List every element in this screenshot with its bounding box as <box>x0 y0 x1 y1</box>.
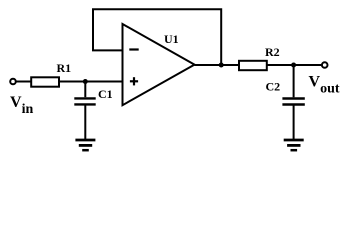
output terminal (open circle) <box>322 62 328 68</box>
wire: op-amp output to R2 <box>195 64 239 66</box>
resistor R2 <box>239 61 267 70</box>
wire: input terminal to R1 <box>16 81 31 83</box>
wire: junction down to C2 <box>293 65 295 97</box>
wire: junction down to C1 <box>84 82 86 98</box>
wire: C2 to ground <box>293 106 295 140</box>
node: junction of R2/C2 <box>291 63 296 68</box>
svg-text:U1: U1 <box>164 32 179 46</box>
op-amp inverting input symbol (minus) <box>129 48 138 50</box>
resistor R1 <box>31 77 59 86</box>
op-amp U1 (triangle body) <box>123 24 195 105</box>
svg-text:R2: R2 <box>265 45 280 59</box>
ground (right) <box>284 140 304 150</box>
svg-text:C1: C1 <box>98 87 113 101</box>
node: output/feedback junction <box>219 63 224 68</box>
op-amp non-inverting input symbol (plus) <box>130 77 138 85</box>
svg-text:C2: C2 <box>266 79 281 93</box>
wire: R1 to op-amp + input <box>60 81 123 83</box>
capacitor C2 <box>282 99 304 105</box>
ground (left) <box>75 140 95 150</box>
wire: R2 to output terminal <box>267 64 322 66</box>
wire: C1 to ground <box>84 106 86 140</box>
wire: feedback into inverting input <box>92 49 123 51</box>
input terminal (open circle) <box>10 79 16 85</box>
svg-text:R1: R1 <box>57 61 72 75</box>
node: junction of R1/C1 <box>83 79 88 84</box>
capacitor C1 <box>74 98 95 104</box>
feedback wire (left riser, top run, right riser) <box>93 9 221 64</box>
